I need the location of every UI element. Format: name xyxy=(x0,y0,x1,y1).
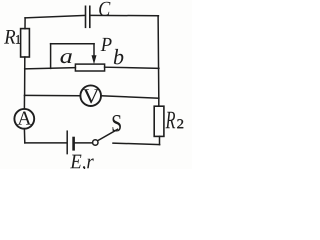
battery short plate xyxy=(72,138,75,149)
label A in ammeter xyxy=(17,112,31,125)
wire left vertical below ammeter xyxy=(23,129,25,143)
label E of E,r xyxy=(70,155,81,169)
label R2 - R xyxy=(166,112,176,129)
wire top-right horizontal xyxy=(90,14,158,16)
label comma of E,r xyxy=(82,166,85,171)
wire left vertical top xyxy=(24,18,26,29)
label a xyxy=(60,53,71,63)
wire mid horizontal left xyxy=(25,68,76,69)
wire voltmeter branch right xyxy=(101,96,159,98)
label V in voltmeter xyxy=(83,89,100,103)
label R1 - subscript 1 xyxy=(16,35,20,44)
resistor R1 body xyxy=(21,29,30,57)
switch lever xyxy=(98,129,118,140)
label C xyxy=(99,2,110,16)
label b xyxy=(114,49,124,64)
rheostat body xyxy=(75,64,104,71)
capacitor C plates xyxy=(86,6,90,27)
label P xyxy=(101,38,112,51)
wire right vertical above R2 xyxy=(158,98,160,106)
wire wiper loop vertical xyxy=(50,44,52,69)
wire below R2 xyxy=(159,136,161,144)
switch pivot circle xyxy=(93,140,98,145)
wire voltmeter branch left xyxy=(25,94,81,96)
wire left vertical middle xyxy=(24,57,26,96)
wire wiper loop horizontal xyxy=(51,43,94,45)
wire bottom left horizontal xyxy=(25,142,67,144)
wire battery to switch xyxy=(75,142,93,144)
label R1 - R xyxy=(4,30,15,44)
wire right vertical top xyxy=(157,16,160,99)
wiper arrow P xyxy=(92,44,97,64)
ammeter circle xyxy=(14,109,34,129)
resistor R2 body xyxy=(154,106,164,136)
wire top-left horizontal xyxy=(25,15,85,18)
label S xyxy=(113,115,121,132)
label R2 - subscript 2 xyxy=(177,119,183,128)
label r of E,r xyxy=(87,158,94,168)
battery long plate xyxy=(66,131,68,153)
wire left vertical above ammeter xyxy=(23,96,25,109)
wire mid horizontal right xyxy=(105,67,159,68)
voltmeter circle xyxy=(80,85,101,106)
wire bottom right horizontal xyxy=(113,143,160,145)
